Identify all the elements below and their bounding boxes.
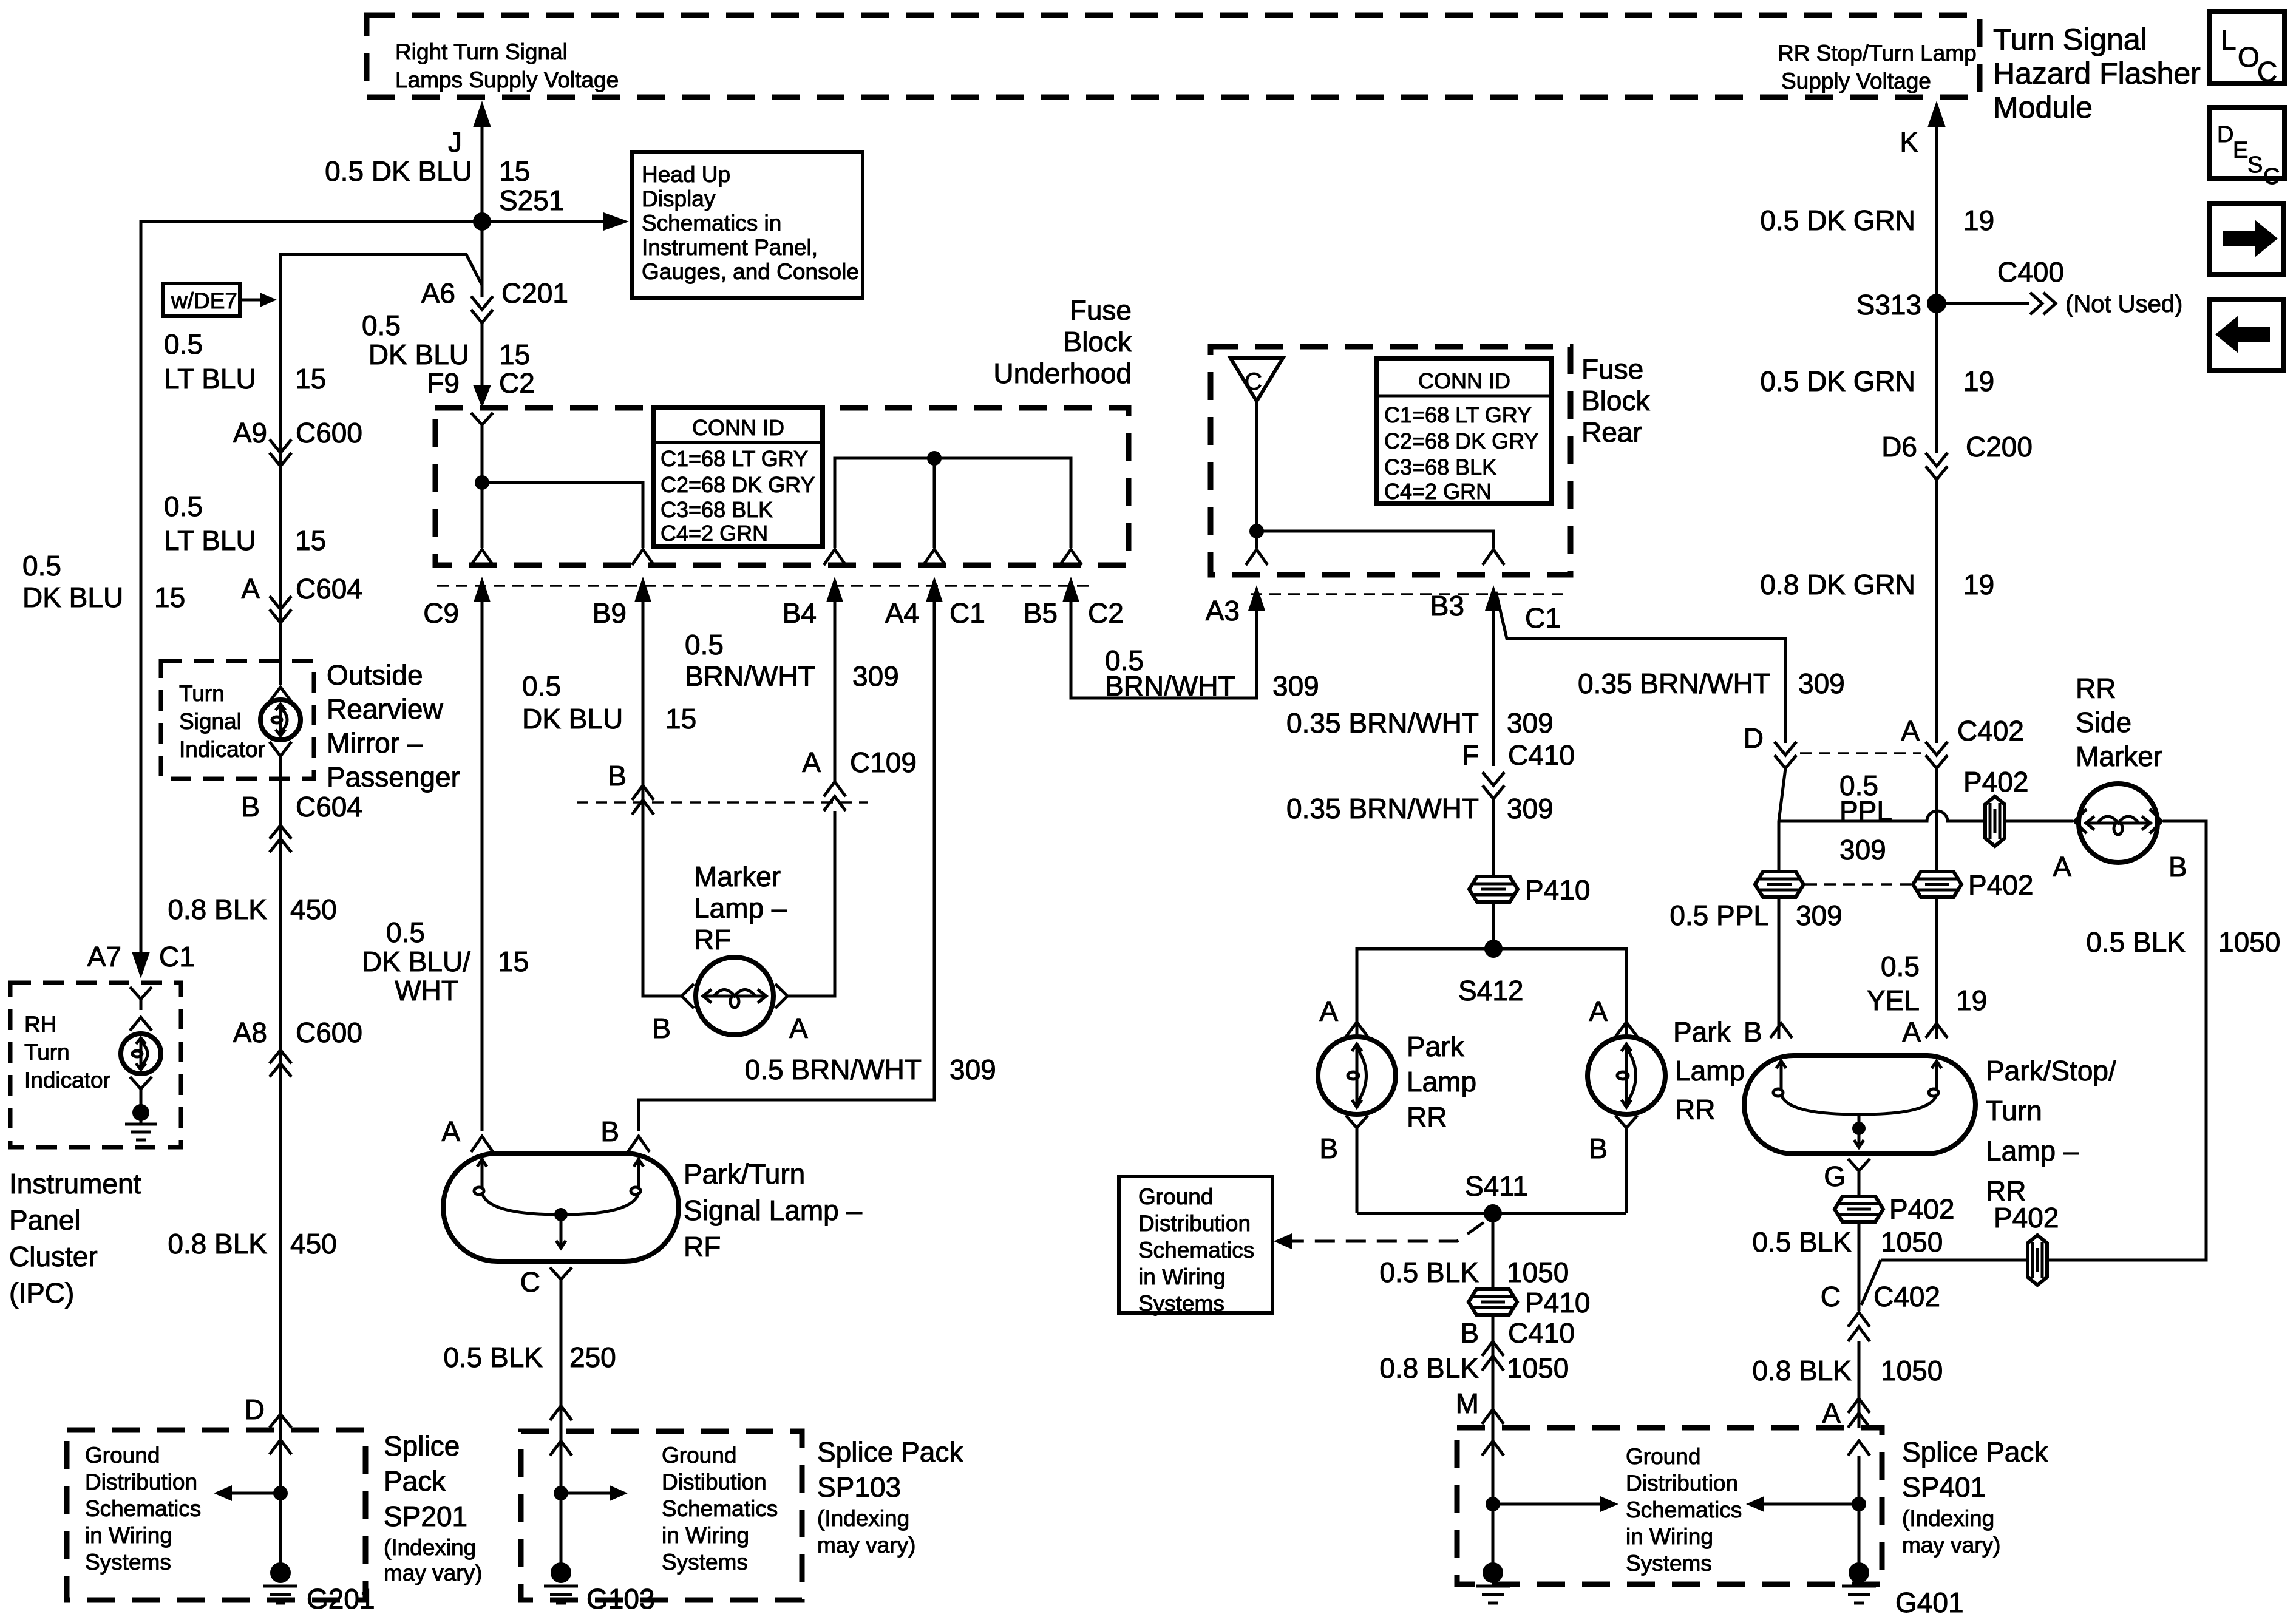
wire: park lamps RR pins B to S411: [1319, 1116, 1637, 1213]
svg-text:B5: B5: [1024, 597, 1058, 629]
connector park lamp RR left pin A: [1319, 995, 1368, 1037]
connector F C410: [1462, 739, 1575, 799]
wire: lamp to ground inside IPC: [130, 1077, 152, 1105]
wire: SP201 internal with arrow to ground distribution: [214, 1440, 291, 1501]
label: RR Side Marker: [2076, 673, 2162, 772]
wire: A4 to park/turn signal lamp RF pin B (0.5 BRN/WHT 309): [639, 631, 996, 1131]
svg-text:0.5 DK GRN: 0.5 DK GRN: [1760, 365, 1915, 397]
svg-text:CONN ID: CONN ID: [1418, 368, 1510, 393]
connector interface C410/C1 (thin dashed): [1251, 593, 1566, 595]
connector A8 C600: [233, 1017, 362, 1077]
svg-text:Fuse: Fuse: [1070, 294, 1132, 326]
svg-text:Lamp –: Lamp –: [694, 892, 787, 924]
wire: S313 to connector C200 pin D6 (0.5 DK GRN 19): [1760, 303, 1994, 453]
wire: pin J to S251 (0.5 DK BLU 15): [325, 101, 530, 222]
svg-text:DK BLU/: DK BLU/: [362, 946, 470, 977]
wire: S411 to C410 pin B (0.5 BLK 1050): [1379, 1213, 1569, 1392]
connector D6 C200: [1881, 431, 2033, 480]
wire: side marker pin B to P402 ground branch (0.5 BLK 1050): [2053, 821, 2280, 1260]
wire: SP401 internal right with arrow: [1746, 1441, 1870, 1565]
connector A9 C600: [233, 417, 362, 466]
svg-text:A: A: [2053, 851, 2071, 883]
pin C2 (female): [1060, 549, 1082, 565]
svg-text:D: D: [1744, 722, 1764, 754]
inline connector P402 (on G wire): [1835, 1193, 1954, 1225]
svg-text:309: 309: [1839, 834, 1886, 866]
label: Turn Signal Hazard Flasher Module: [1993, 22, 2201, 124]
pin B3 (female): [1483, 549, 1504, 565]
svg-text:A6: A6: [421, 277, 455, 309]
ground G103: [544, 1562, 655, 1615]
label: Park B Lamp RR (left terminal): [1673, 1016, 1745, 1125]
svg-text:C2: C2: [499, 367, 535, 399]
svg-text:S411: S411: [1465, 1170, 1528, 1202]
turn signal hazard flasher module (dashed outline box): [367, 15, 1980, 97]
table: CONN ID (rear): [1377, 358, 1552, 504]
svg-text:S251: S251: [499, 185, 564, 216]
svg-text:C402: C402: [1873, 1281, 1940, 1312]
svg-text:Signal: Signal: [179, 709, 242, 734]
svg-text:0.5: 0.5: [685, 629, 724, 660]
fuse block rear (dashed outline box): [1211, 347, 1571, 575]
svg-text:15: 15: [498, 946, 529, 977]
pin B4 (female): [824, 549, 846, 565]
wire: lamp RF pin C to splice pack SP103 (0.5 BLK 250): [443, 1266, 616, 1565]
svg-text:1050: 1050: [1507, 1256, 1569, 1288]
svg-text:Schematics: Schematics: [1138, 1238, 1254, 1263]
svg-text:Distribution: Distribution: [1138, 1211, 1251, 1236]
svg-text:A: A: [441, 1116, 460, 1147]
svg-text:Turn Signal: Turn Signal: [1993, 22, 2147, 56]
svg-text:in Wiring: in Wiring: [85, 1523, 172, 1548]
lamp: RH turn indicator bulb: [121, 1034, 161, 1074]
label: 0.8 BLK 450 (lower): [168, 1228, 336, 1259]
svg-text:15: 15: [665, 703, 696, 734]
wire: C410 to S412 (0.35 BRN/WHT 309): [1286, 793, 1554, 949]
wire: B3 down to C410 (0.35 BRN/WHT 309): [1286, 641, 1554, 766]
lamp: park lamp RR (left): [1318, 1037, 1396, 1114]
svg-text:C1=68 LT GRY: C1=68 LT GRY: [661, 446, 808, 471]
flag: w/DE7: [163, 283, 277, 316]
svg-text:Right Turn Signal: Right Turn Signal: [395, 39, 568, 64]
lamp: turn signal indicator bulb: [260, 687, 301, 756]
svg-text:Head Up: Head Up: [642, 162, 730, 187]
node: Right Turn Signal Lamps Supply Voltage: [395, 39, 619, 92]
connector interface C109 (thin dashed): [577, 801, 868, 804]
svg-text:0.35 BRN/WHT: 0.35 BRN/WHT: [1286, 707, 1479, 739]
svg-text:C2=68 DK GRY: C2=68 DK GRY: [1384, 429, 1538, 453]
svg-text:C410: C410: [1508, 1317, 1575, 1349]
wire: C402 pin A to park/stop/turn lamp pin A (0.5 YEL 19): [1867, 768, 1987, 1039]
wire: C410 to splice pack SP401 pin M (0.8 BLK 1050): [1379, 1352, 1569, 1565]
svg-text:Indicator: Indicator: [24, 1068, 110, 1093]
svg-text:D: D: [245, 1394, 265, 1425]
svg-text:B: B: [1319, 1133, 1338, 1164]
svg-text:may vary): may vary): [384, 1561, 482, 1585]
label: Fuse Block Rear: [1581, 353, 1650, 448]
ground (RH turn indicator): [125, 1104, 157, 1140]
svg-text:in Wiring: in Wiring: [662, 1523, 749, 1548]
svg-text:PPL: PPL: [1839, 795, 1892, 827]
svg-text:C600: C600: [296, 417, 362, 449]
svg-text:may vary): may vary): [1902, 1533, 2000, 1558]
svg-text:Lamps Supply Voltage: Lamps Supply Voltage: [395, 67, 619, 92]
ground G201: [263, 1562, 375, 1615]
svg-text:1050: 1050: [2218, 926, 2280, 958]
pin A4 (female): [923, 549, 945, 565]
inline connector P402 (on horizontal, to side marker): [1963, 766, 2028, 846]
svg-text:0.5: 0.5: [362, 310, 401, 341]
svg-text:P402: P402: [1963, 766, 2028, 798]
svg-text:Turn: Turn: [179, 681, 225, 706]
svg-text:L: L: [2221, 24, 2237, 56]
svg-text:Splice Pack: Splice Pack: [1902, 1436, 2048, 1468]
svg-text:Passenger: Passenger: [327, 761, 460, 793]
wire: S251 to Head Up Display reference (arrow): [482, 212, 629, 231]
svg-text:309: 309: [949, 1054, 996, 1085]
svg-text:Systems: Systems: [1138, 1291, 1224, 1316]
pin B9 male arrow: [593, 577, 651, 631]
svg-text:0.8 BLK: 0.8 BLK: [168, 893, 267, 925]
svg-text:1050: 1050: [1881, 1226, 1943, 1258]
svg-text:(IPC): (IPC): [9, 1277, 74, 1309]
svg-text:BRN/WHT: BRN/WHT: [1105, 670, 1235, 702]
svg-text:Signal Lamp –: Signal Lamp –: [684, 1195, 862, 1226]
label: Park/Turn Signal Lamp RF: [684, 1158, 862, 1263]
svg-text:15: 15: [295, 524, 326, 556]
svg-text:0.8 DK GRN: 0.8 DK GRN: [1760, 569, 1915, 600]
svg-text:0.5: 0.5: [522, 670, 561, 702]
pin C9 male arrow: [423, 577, 491, 631]
svg-text:Lamp –: Lamp –: [1986, 1135, 2079, 1167]
svg-text:P410: P410: [1525, 874, 1590, 906]
svg-text:0.5: 0.5: [164, 328, 203, 360]
svg-text:Systems: Systems: [662, 1550, 748, 1575]
svg-text:A: A: [1901, 715, 1920, 747]
svg-text:Systems: Systems: [85, 1550, 171, 1575]
svg-text:in Wiring: in Wiring: [1626, 1524, 1713, 1549]
wire: B9 to marker lamp RF pin B (0.5 DK BLU 15): [522, 631, 696, 996]
svg-text:B: B: [1744, 1016, 1762, 1048]
pin B3 C1 male arrow: [1430, 585, 1561, 641]
svg-text:0.5: 0.5: [164, 490, 203, 522]
fuse block underhood (dashed outline box): [435, 408, 1129, 565]
svg-text:G: G: [1824, 1161, 1846, 1192]
wire: S412 to park lamps RR pins A: [1357, 949, 1626, 1037]
fuse C (triangle symbol): [1231, 358, 1283, 401]
label: Instrument Panel Cluster (IPC): [9, 1168, 141, 1309]
svg-text:309: 309: [852, 660, 899, 692]
wire: fuse block internal bus F9 to C9 and B9: [471, 413, 643, 548]
svg-text:C109: C109: [850, 747, 917, 778]
label: Splice Pack SP103: [817, 1436, 963, 1558]
lamp: park/stop/turn lamp RR (dual filament): [1744, 1016, 1975, 1154]
svg-text:Panel: Panel: [9, 1204, 81, 1236]
pin A3 (female): [1246, 549, 1268, 565]
instrument panel cluster dashed box: [10, 983, 181, 1147]
svg-text:Marker: Marker: [694, 861, 781, 892]
svg-text:Ground: Ground: [1626, 1444, 1700, 1469]
svg-text:Schematics in: Schematics in: [642, 211, 781, 236]
svg-text:15: 15: [499, 155, 530, 187]
svg-text:B: B: [608, 760, 627, 792]
svg-text:C604: C604: [296, 791, 362, 822]
svg-text:P402: P402: [1968, 869, 2033, 901]
svg-text:C4=2 GRN: C4=2 GRN: [1384, 479, 1492, 504]
svg-text:Turn: Turn: [24, 1040, 70, 1065]
svg-text:DK BLU: DK BLU: [522, 703, 623, 734]
label: 0.5 PPL 309: [1669, 900, 1842, 931]
splice S313: [1856, 289, 1946, 320]
inline connector P402 (lower pair, right): [1805, 869, 2033, 901]
splice S412: [1458, 940, 1523, 1006]
svg-text:YEL: YEL: [1867, 985, 1920, 1016]
svg-text:Distribution: Distribution: [1626, 1471, 1738, 1496]
svg-text:309: 309: [1507, 707, 1554, 739]
svg-text:Block: Block: [1064, 326, 1132, 358]
pin A3 male arrow: [1206, 585, 1265, 631]
svg-text:D6: D6: [1881, 431, 1917, 463]
svg-text:C: C: [1245, 368, 1262, 395]
svg-text:LT BLU: LT BLU: [164, 363, 256, 395]
legend box: DESC: [2210, 107, 2284, 189]
splice pack SP201 dashed box: [67, 1430, 365, 1600]
svg-text:Turn: Turn: [1986, 1095, 2042, 1127]
svg-text:0.5 BLK: 0.5 BLK: [443, 1341, 543, 1373]
svg-text:0.5 PPL: 0.5 PPL: [1669, 900, 1769, 931]
svg-text:B: B: [600, 1116, 619, 1147]
label: Marker Lamp RF: [694, 861, 787, 955]
inline connector P402 (lower pair, left): [1755, 872, 1804, 897]
splice pack SP103 dashed box: [521, 1431, 802, 1600]
svg-text:G201: G201: [307, 1583, 375, 1615]
svg-text:0.35 BRN/WHT: 0.35 BRN/WHT: [1286, 793, 1479, 824]
label: 0.5 LT BLU 15 (lower): [164, 490, 326, 556]
svg-text:C: C: [520, 1266, 540, 1298]
svg-text:Park: Park: [1407, 1031, 1465, 1062]
svg-text:0.5 DK BLU: 0.5 DK BLU: [325, 155, 472, 187]
svg-text:Indicator: Indicator: [179, 737, 265, 762]
svg-text:C: C: [2257, 56, 2277, 87]
svg-text:A: A: [1589, 995, 1608, 1027]
svg-text:C200: C200: [1966, 431, 2033, 463]
connector A C402: [1901, 715, 2024, 768]
lamp: marker lamp RF: [652, 957, 808, 1044]
svg-text:w/DE7: w/DE7: [171, 288, 237, 313]
svg-text:F9: F9: [427, 367, 460, 399]
legend box: left arrow: [2210, 299, 2283, 370]
node: RR Stop/Turn Lamp Supply Voltage: [1778, 41, 1977, 93]
wire: S251 left branch to IPC pin A7 (0.5 DK BLU 15): [22, 222, 482, 952]
svg-text:A4: A4: [885, 597, 919, 629]
connector interface C100 (thin dashed): [437, 585, 1093, 587]
svg-text:B: B: [241, 791, 260, 822]
svg-text:Supply Voltage: Supply Voltage: [1781, 69, 1931, 93]
svg-text:A: A: [241, 573, 260, 605]
svg-text:Mirror –: Mirror –: [327, 727, 423, 759]
label: RH Turn Indicator: [24, 1012, 110, 1093]
svg-text:Park: Park: [1673, 1016, 1731, 1048]
svg-text:Ground: Ground: [1138, 1184, 1213, 1209]
wire: C402 pin D to side marker and lamp pin B (0.5 PPL 309): [1779, 768, 2073, 1039]
svg-text:A7: A7: [87, 941, 121, 972]
svg-text:0.5 DK GRN: 0.5 DK GRN: [1760, 205, 1915, 236]
svg-text:Gauges, and Console: Gauges, and Console: [642, 259, 859, 284]
ground G401: [1842, 1562, 1964, 1617]
svg-text:C1: C1: [1525, 602, 1561, 634]
pin C9 (female): [471, 549, 493, 565]
svg-text:309: 309: [1507, 793, 1554, 824]
label: Park Lamp RR: [1407, 1031, 1476, 1133]
svg-text:SP103: SP103: [817, 1471, 901, 1503]
svg-text:A: A: [789, 1012, 808, 1044]
svg-text:F: F: [1462, 739, 1479, 771]
wire: rear fuse block internal bus to A3 and B3: [1249, 401, 1493, 548]
svg-text:B: B: [1460, 1317, 1479, 1349]
svg-text:Splice: Splice: [384, 1430, 460, 1462]
svg-text:(Indexing: (Indexing: [384, 1535, 476, 1560]
lamp: park lamp RR (right): [1588, 1037, 1665, 1114]
wire: SP401 internal left with arrow: [1482, 1441, 1618, 1512]
svg-text:Marker: Marker: [2076, 741, 2162, 772]
legend box: LOC: [2210, 12, 2284, 87]
svg-text:Instrument Panel,: Instrument Panel,: [642, 235, 818, 260]
svg-text:0.5 BRN/WHT: 0.5 BRN/WHT: [745, 1054, 922, 1085]
svg-text:Park/Turn: Park/Turn: [684, 1158, 805, 1190]
wire: w/DE7 branch to C201 pin A6: [280, 254, 482, 685]
svg-text:P402: P402: [1889, 1193, 1954, 1225]
ground G401 (left leg): [1476, 1562, 1510, 1603]
svg-text:0.8 BLK: 0.8 BLK: [168, 1228, 267, 1259]
connector A6 C201: [421, 277, 568, 323]
label: Fuse Block Underhood: [993, 294, 1132, 389]
svg-text:C201: C201: [501, 277, 568, 309]
svg-text:Underhood: Underhood: [993, 358, 1132, 389]
svg-text:0.5: 0.5: [386, 917, 425, 948]
svg-text:B: B: [1589, 1133, 1608, 1164]
pin A4 C1 male arrow: [885, 577, 985, 631]
svg-text:Distribution: Distribution: [85, 1470, 197, 1494]
svg-text:Module: Module: [1993, 90, 2093, 124]
svg-text:C: C: [2263, 164, 2280, 189]
svg-text:C1: C1: [949, 597, 985, 629]
svg-text:C600: C600: [296, 1017, 362, 1048]
svg-text:Rear: Rear: [1581, 416, 1642, 448]
reference box: Head Up Display Schematics: [632, 152, 863, 298]
lamp: RR side marker: [2053, 784, 2187, 883]
reference box: Ground Distribution Schematics (S411): [1119, 1176, 1272, 1316]
svg-text:DK BLU: DK BLU: [22, 581, 123, 613]
svg-text:may vary): may vary): [817, 1533, 915, 1558]
label: 0.8 BLK 450 (upper): [168, 893, 336, 925]
connector D (SP201 entry): [245, 1394, 291, 1428]
svg-text:Lamp: Lamp: [1407, 1066, 1476, 1097]
svg-text:C9: C9: [423, 597, 459, 629]
svg-text:Display: Display: [642, 186, 716, 211]
svg-text:in Wiring: in Wiring: [1138, 1264, 1226, 1289]
svg-text:CONN ID: CONN ID: [692, 415, 784, 440]
splice S411: [1465, 1170, 1528, 1222]
wire: C9 to park/turn signal lamp RF pin A (0.5 DK BLU/WHT 15): [362, 631, 529, 1131]
svg-text:D: D: [2217, 122, 2233, 147]
inline connector P410 (upper): [1469, 874, 1590, 906]
connector interface C402 (thin dashed): [1800, 752, 1921, 754]
svg-text:19: 19: [1956, 985, 1987, 1016]
svg-text:Side: Side: [2076, 707, 2131, 738]
wire: C201 to fuse block pin F9 (0.5 DK BLU 15): [362, 310, 530, 378]
svg-text:19: 19: [1963, 569, 1994, 600]
svg-text:Distibution: Distibution: [662, 1470, 767, 1494]
svg-text:RF: RF: [694, 924, 731, 955]
wire: C2 to rear fuse block A3 (0.5 BRN/WHT 309): [1071, 631, 1319, 702]
wire: SP103 internal with arrow to ground distribution: [550, 1441, 628, 1501]
svg-text:C410: C410: [1508, 739, 1575, 771]
connector F9 C2: [427, 367, 535, 408]
svg-text:WHT: WHT: [395, 975, 458, 1006]
svg-text:0.5 BLK: 0.5 BLK: [1379, 1256, 1479, 1288]
connector B C604: [241, 791, 362, 852]
svg-text:K: K: [1900, 126, 1918, 158]
svg-text:P402: P402: [1994, 1202, 2059, 1233]
svg-text:Schematics: Schematics: [1626, 1497, 1742, 1522]
svg-text:A3: A3: [1206, 595, 1240, 626]
svg-text:0.35 BRN/WHT: 0.35 BRN/WHT: [1578, 668, 1770, 699]
svg-text:Schematics: Schematics: [85, 1496, 201, 1521]
svg-text:Lamp: Lamp: [1675, 1055, 1745, 1086]
lamp: park/turn signal lamp RF (dual filament): [441, 1116, 679, 1261]
svg-text:B9: B9: [593, 597, 627, 629]
svg-text:LT BLU: LT BLU: [164, 524, 256, 556]
svg-text:J: J: [448, 126, 462, 158]
svg-text:B4: B4: [783, 597, 817, 629]
svg-text:B3: B3: [1430, 590, 1464, 622]
svg-text:S313: S313: [1856, 289, 1921, 320]
svg-text:G401: G401: [1895, 1587, 1964, 1617]
connector B C410: [1460, 1317, 1575, 1371]
svg-text:RH: RH: [24, 1012, 56, 1037]
svg-text:250: 250: [569, 1341, 616, 1373]
svg-text:15: 15: [154, 581, 185, 613]
svg-text:(Not Used): (Not Used): [2065, 291, 2182, 317]
connector D C402: [1744, 722, 1796, 768]
svg-text:C2=68 DK GRY: C2=68 DK GRY: [661, 472, 815, 497]
svg-text:Ground: Ground: [85, 1443, 160, 1468]
table: CONN ID (underhood): [654, 407, 823, 546]
svg-text:1050: 1050: [1507, 1352, 1569, 1384]
svg-text:G103: G103: [586, 1583, 655, 1615]
svg-text:C: C: [1821, 1281, 1841, 1312]
svg-text:Splice Pack: Splice Pack: [817, 1436, 963, 1468]
pin B5 C2 male arrow: [1024, 577, 1124, 631]
svg-text:0.8 BLK: 0.8 BLK: [1752, 1355, 1852, 1386]
svg-text:SP401: SP401: [1902, 1471, 1986, 1503]
svg-text:309: 309: [1796, 900, 1843, 931]
pin B4 male arrow: [783, 577, 843, 631]
svg-text:B: B: [652, 1012, 671, 1044]
svg-text:M: M: [1456, 1388, 1479, 1419]
wire: C402 pin C to splice pack SP401 pin A (0.8 BLK 1050): [1752, 1341, 1943, 1429]
svg-text:Schematics: Schematics: [662, 1496, 778, 1521]
splice pack SP401 dashed box: [1457, 1428, 1882, 1584]
wire: indicator to splice pack SP201 (0.8 BLK 450): [279, 756, 282, 1565]
splice S251: [473, 185, 564, 231]
svg-text:0.5 BLK: 0.5 BLK: [1752, 1226, 1852, 1258]
svg-text:19: 19: [1963, 365, 1994, 397]
svg-text:450: 450: [290, 1228, 337, 1259]
svg-text:DK BLU: DK BLU: [369, 339, 469, 370]
connector C C402: [1821, 1281, 1940, 1341]
svg-text:Cluster: Cluster: [9, 1241, 98, 1272]
